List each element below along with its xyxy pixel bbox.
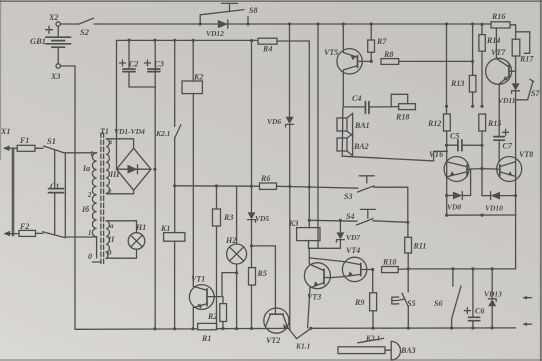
capacitor C7 (494, 129, 513, 162)
lamp H2 (225, 186, 247, 328)
lower emitter line (447, 215, 516, 269)
lamp H1 (128, 223, 146, 249)
transistor VT5 (324, 24, 371, 107)
diode VD12 (206, 20, 228, 38)
resistor R12 (427, 24, 450, 157)
capacitor C3 (145, 60, 164, 72)
resistor R10 (382, 258, 409, 273)
switch S2 (60, 18, 93, 37)
wire VT5 emitter chain through speakers to VT6 collector (342, 107, 447, 161)
transistor VT8 (482, 106, 533, 215)
contact K1.1 (288, 327, 311, 350)
transistor VT2 (264, 308, 289, 345)
battery GB1 (30, 13, 71, 81)
transistor VT1 (189, 273, 222, 328)
diode VD10 (482, 192, 516, 213)
resistor R15 (479, 114, 502, 196)
buzzer BA3 (385, 341, 416, 360)
transistor VT3 (304, 263, 343, 328)
wire VD6 node down to K1.1 (289, 186, 291, 330)
contact K2.1 (155, 40, 181, 186)
resistor R6 (260, 174, 277, 189)
bridge rectifier VD1-VD4 (114, 127, 151, 190)
capacitor C2 (120, 40, 156, 87)
connector X1 (0, 127, 19, 236)
resistor R4 (in rail2) (258, 38, 309, 53)
top rail (94, 23, 491, 25)
pushbutton S8 (200, 3, 257, 24)
pushbutton S4 (309, 209, 408, 225)
transformer T1 primary winding (81, 127, 109, 262)
capacitor C6 (464, 269, 484, 328)
speaker BA2 (337, 134, 369, 156)
wire K2 to VT1 (192, 94, 194, 287)
transformer T1 winding II (106, 221, 115, 259)
resistor R2 (207, 297, 227, 329)
resistor R8 (381, 50, 473, 64)
node line S5/C6/VD13 (408, 268, 515, 270)
wire to VT4 base (309, 258, 344, 262)
rheostat R18 (391, 94, 415, 121)
relay K3 (288, 219, 320, 248)
resistor R11 (405, 187, 427, 269)
capacitor C5 (447, 132, 482, 151)
bottom rail with resistor R1 (75, 328, 198, 330)
fuse F2 (19, 222, 36, 236)
resistor R14 (479, 24, 500, 106)
diode VD8 (447, 169, 471, 212)
wire rail2 right corner down (308, 41, 310, 228)
resistor R3 (213, 186, 234, 329)
output terminal marks (524, 298, 532, 325)
resistor R13 (450, 24, 476, 106)
resistor R16 (in top rail) (491, 12, 510, 28)
wire bridge left to rail2 (117, 40, 259, 169)
zener VD7 (336, 220, 360, 248)
switch S6 (434, 269, 461, 328)
zener VD11 (498, 83, 520, 106)
wire bridge right bus (154, 40, 156, 329)
wire X3 to bottom rail (60, 66, 75, 329)
resistor R7 (368, 24, 388, 61)
transistor VT4 (342, 246, 372, 282)
zener VD13 (484, 269, 502, 328)
switch S7 (516, 79, 541, 100)
pushbutton S3 (309, 176, 408, 201)
transformer T1 core (101, 133, 104, 264)
relay K1 (160, 186, 185, 329)
wire top rail down to K3 node (317, 24, 319, 248)
switch S5 (392, 269, 416, 328)
transformer T1 winding III (106, 138, 120, 195)
fuse F1 (17, 136, 35, 151)
zener VD5 (248, 212, 270, 223)
resistor R9 (354, 270, 377, 329)
wire winding III to bridge (106, 139, 133, 194)
node line (S3 feed line) (175, 186, 310, 187)
capacitor C1 and S1 linkage (49, 150, 66, 237)
wire winding II to lamp H1 (106, 221, 136, 258)
transistor VT6 (429, 150, 482, 215)
zener VD6 and wire from top rail (267, 24, 294, 186)
zener VD5 chain wire (251, 41, 253, 268)
resistor R5 (249, 268, 267, 329)
wire VD5 node to VT2 base (252, 246, 276, 314)
node wire K3/VD7 to VT3 (309, 247, 341, 249)
wire H2 node to VT1 base (222, 272, 237, 274)
switch S1 (two poles) (35, 136, 97, 238)
resistor R17 with tap (512, 25, 534, 83)
transistor VT7 (486, 28, 516, 136)
speaker BA1 (337, 114, 370, 136)
capacitor C4 (343, 94, 391, 113)
relay K2 (182, 40, 203, 93)
contact K3.1 (338, 334, 385, 354)
